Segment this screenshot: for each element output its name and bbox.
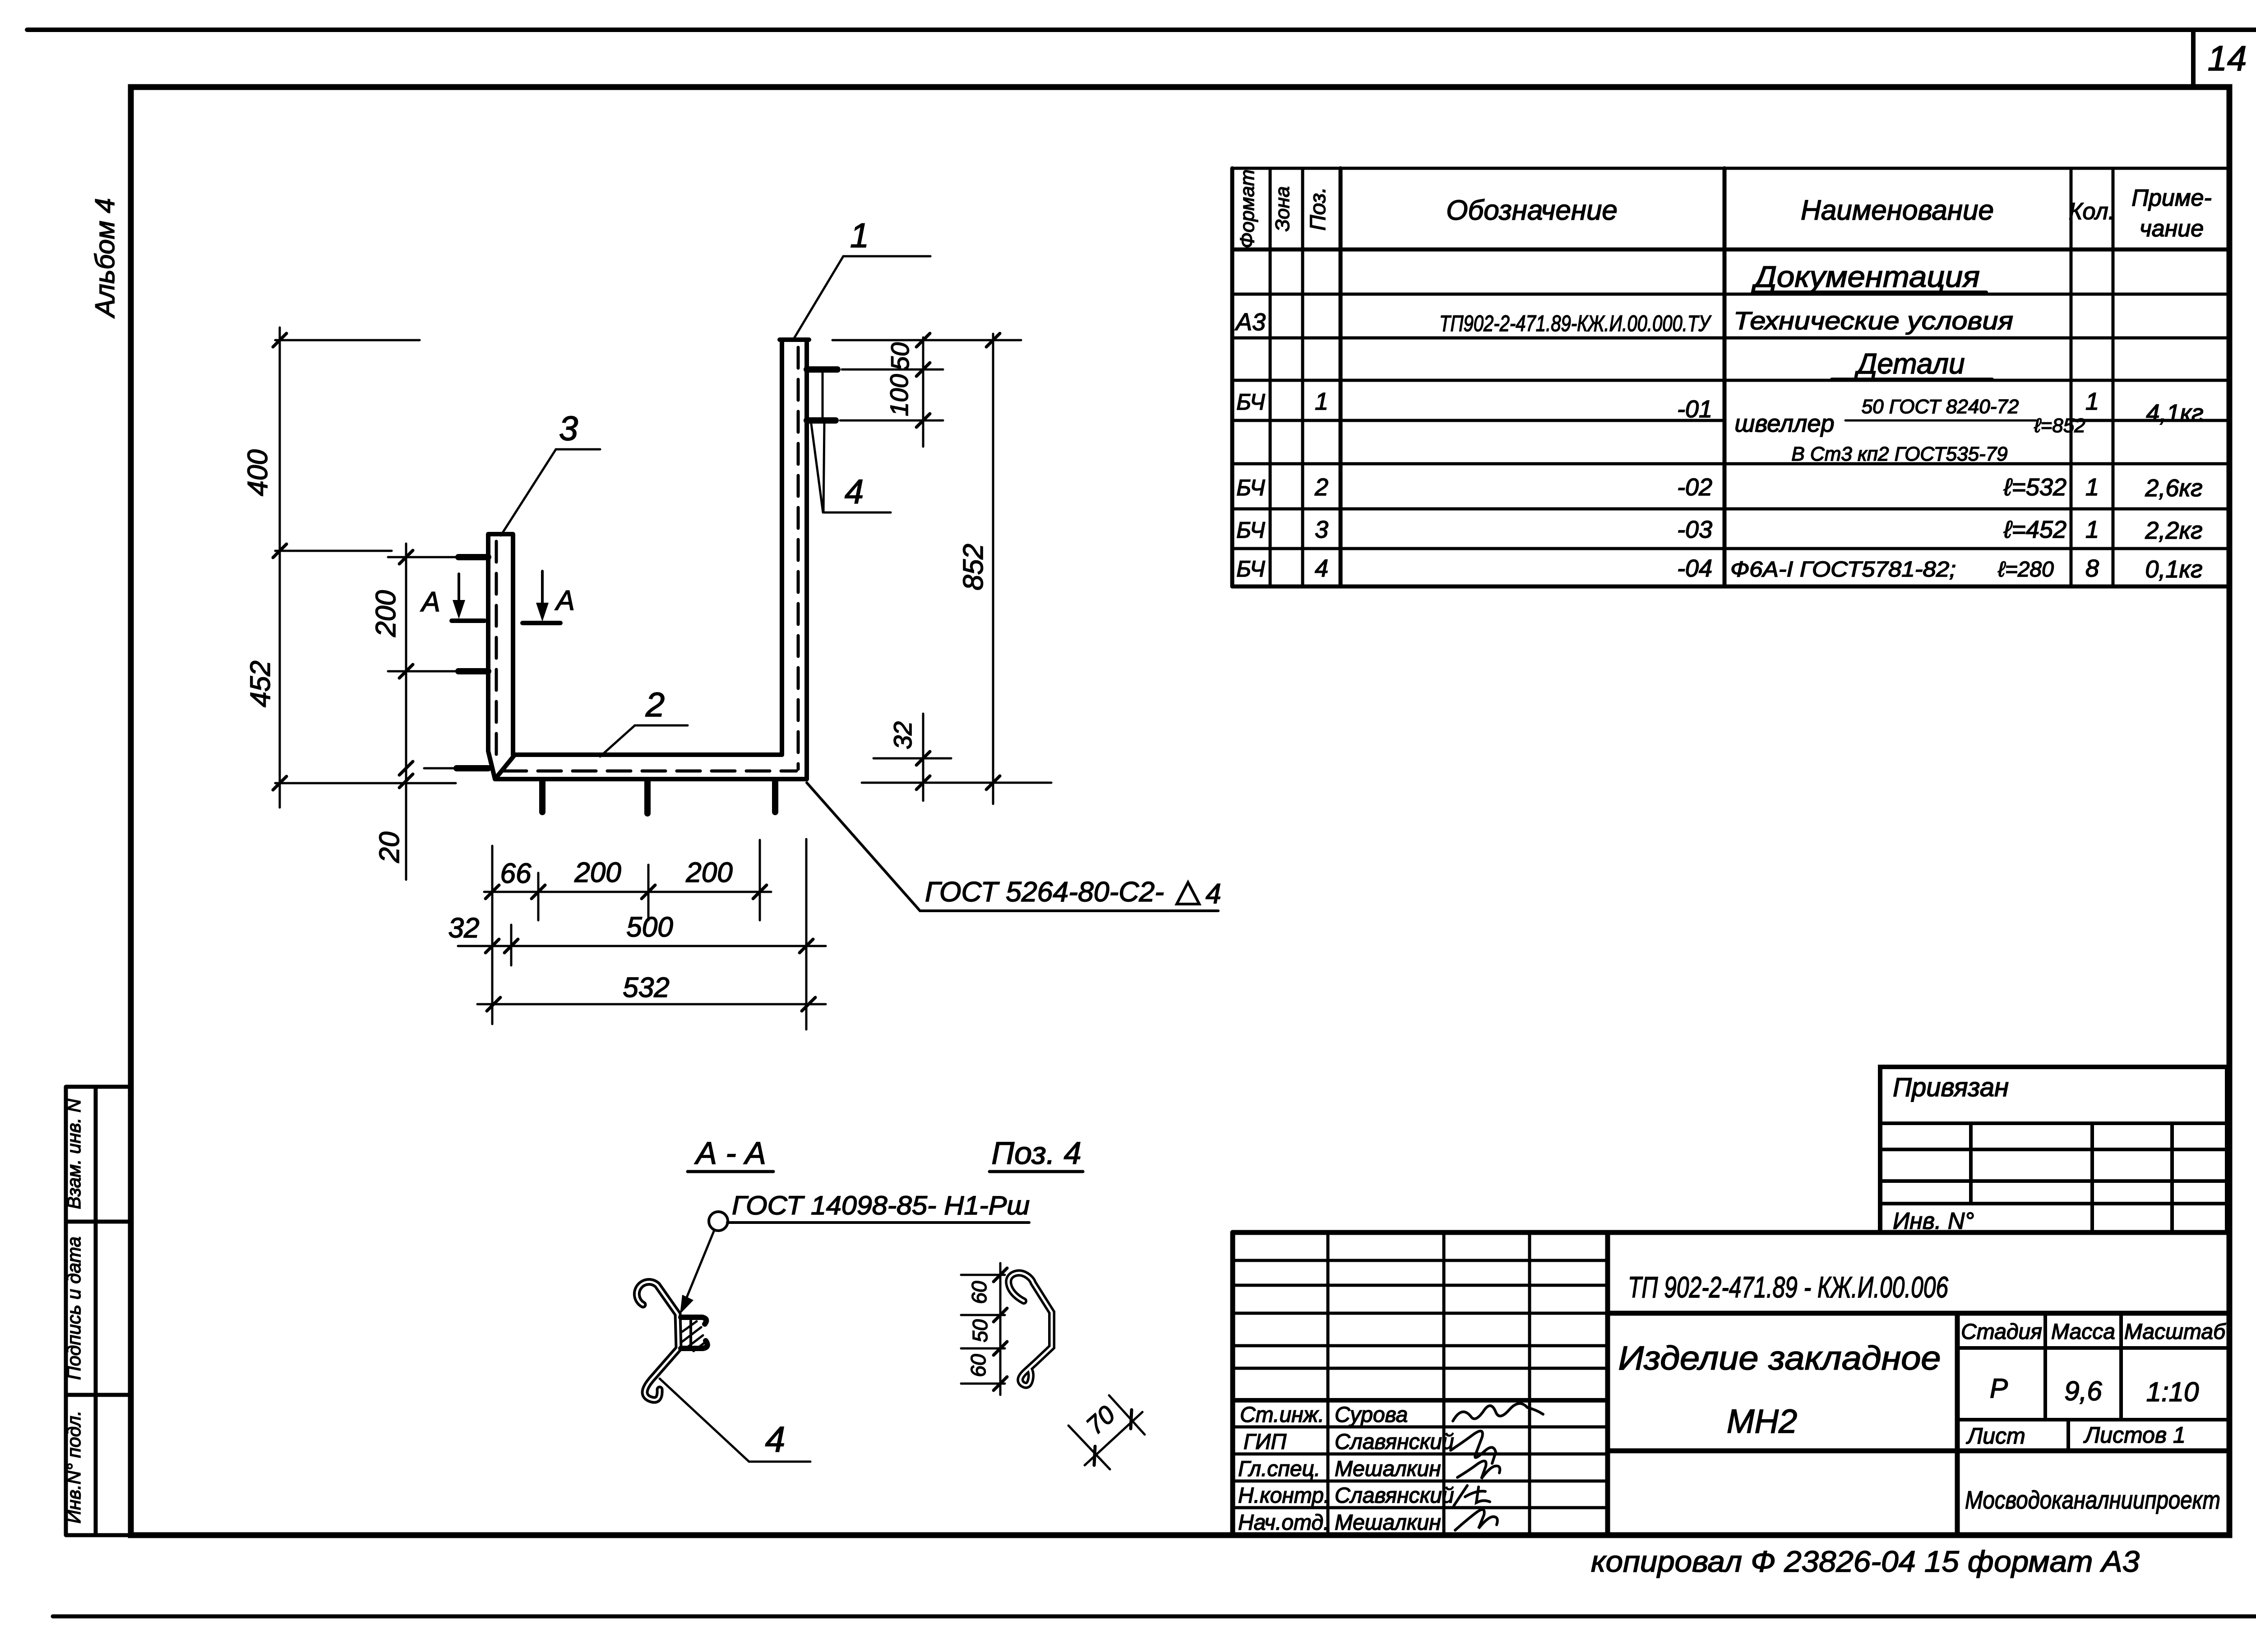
svg-text:Кол.: Кол.: [2069, 198, 2115, 225]
svg-text:500: 500: [626, 912, 673, 943]
svg-text:2,2кг: 2,2кг: [2145, 517, 2202, 544]
svg-text:В Ст3 кп2 ГОСТ535-79: В Ст3 кп2 ГОСТ535-79: [1791, 443, 2007, 465]
svg-text:1: 1: [2085, 516, 2099, 543]
weld symbol triangle: [1177, 882, 1199, 904]
bottom dim ticks: [485, 885, 815, 1011]
svg-text:Мешалкин: Мешалкин: [1335, 1457, 1441, 1481]
weld ref circle: [709, 1212, 728, 1231]
svg-text:1: 1: [2085, 388, 2099, 415]
dim ticks left: [273, 333, 413, 790]
svg-text:МН2: МН2: [1727, 1403, 1797, 1440]
svg-text:-02: -02: [1677, 474, 1712, 501]
svg-text:Наименование: Наименование: [1801, 195, 1994, 226]
bottom dimension line 532: [477, 1003, 826, 1006]
svg-text:Обозначение: Обозначение: [1446, 195, 1618, 226]
channel profile in section: [681, 1317, 707, 1348]
svg-text:4: 4: [1206, 878, 1221, 909]
rod pos 4 side view: [1008, 1273, 1052, 1385]
svg-text:50 ГОСТ 8240-72: 50 ГОСТ 8240-72: [1862, 396, 2019, 418]
rod pos 4 cross-section А-А: [637, 1282, 679, 1400]
svg-text:3: 3: [1315, 516, 1328, 543]
side view dim extension lines: [961, 1263, 1005, 1395]
svg-text:4: 4: [1315, 555, 1328, 582]
svg-text:66: 66: [500, 858, 532, 889]
dimension line 400/452 left: [279, 328, 281, 808]
svg-text:9,6: 9,6: [2064, 1376, 2102, 1406]
svg-text:Масса: Масса: [2051, 1320, 2115, 1344]
leader label 4 right: [811, 370, 891, 512]
bottom dimension extension verticals: [458, 839, 826, 1029]
svg-text:400: 400: [242, 449, 273, 496]
svg-text:-03: -03: [1677, 516, 1712, 543]
svg-text:Ф6А-I ГОСТ5781-82;: Ф6А-I ГОСТ5781-82;: [1730, 558, 1956, 581]
svg-text:1:10: 1:10: [2146, 1377, 2199, 1407]
svg-text:ℓ=532: ℓ=532: [2003, 474, 2066, 501]
svg-text:1: 1: [850, 217, 869, 255]
part 3 channel left vertical outline: [488, 534, 513, 779]
svg-text:Альбом 4: Альбом 4: [90, 198, 120, 318]
svg-text:3: 3: [559, 410, 578, 448]
svg-text:200: 200: [574, 857, 621, 888]
svg-text:14: 14: [2208, 38, 2247, 78]
dashed centerline part 3: [495, 541, 498, 765]
svg-text:Славянский: Славянский: [1335, 1484, 1454, 1508]
svg-text:БЧ: БЧ: [1236, 556, 1265, 581]
dashed centerline part 1: [797, 347, 800, 769]
dimension line 50/100 right inner: [922, 337, 925, 447]
signature squiggle row2: [1451, 1431, 1496, 1463]
svg-text:Привязан: Привязан: [1893, 1073, 2009, 1102]
side view dim ticks: [994, 1268, 1007, 1390]
title block signature table grid: [1233, 1232, 2229, 1535]
svg-text:ℓ=452: ℓ=452: [2003, 516, 2066, 543]
part 2 channel bottom horizontal outline: [495, 755, 807, 779]
svg-text:452: 452: [245, 660, 276, 707]
leader label 3: [501, 449, 600, 535]
leader label 2: [600, 725, 688, 757]
signature squiggle row5: [1455, 1509, 1498, 1530]
svg-text:Подпись и дата: Подпись и дата: [63, 1237, 84, 1380]
sheet number box "14": [2191, 30, 2196, 87]
leader label 4 bottom: [660, 1379, 810, 1462]
svg-text:ℓ=852: ℓ=852: [2034, 415, 2085, 437]
leader label 1: [793, 256, 930, 340]
svg-text:4: 4: [765, 1419, 786, 1459]
svg-text:копировал Ф 23826-04 15 форм: копировал Ф 23826-04 15 формат А3: [1591, 1545, 2140, 1578]
svg-text:200: 200: [685, 857, 732, 888]
svg-text:Стадия: Стадия: [1961, 1320, 2042, 1344]
svg-text:Документация: Документация: [1751, 260, 1980, 293]
svg-text:1: 1: [1315, 388, 1328, 415]
svg-text:32: 32: [448, 913, 480, 944]
svg-text:БЧ: БЧ: [1236, 389, 1265, 415]
svg-text:швеллер: швеллер: [1734, 410, 1834, 437]
svg-text:А: А: [420, 586, 440, 618]
side view dim line 60/50/60: [999, 1263, 1002, 1395]
svg-text:А - А: А - А: [694, 1135, 766, 1171]
part 1 channel right vertical outline: [488, 340, 809, 779]
svg-text:Славянский: Славянский: [1335, 1430, 1454, 1454]
svg-text:ГОСТ 5264-80-С2-: ГОСТ 5264-80-С2-: [925, 877, 1164, 908]
section hatching: [682, 1321, 705, 1351]
anchor rods pos 4 bottom: [539, 782, 546, 812]
weld ref arrow to section: [684, 1230, 714, 1305]
svg-text:-04: -04: [1677, 555, 1712, 582]
dimension extension lines right: [832, 334, 1051, 804]
svg-text:Приме-: Приме-: [2131, 185, 2211, 211]
svg-text:Взам. инв. N: Взам. инв. N: [63, 1098, 84, 1209]
svg-text:чание: чание: [2140, 216, 2204, 242]
svg-text:Поз. 4: Поз. 4: [991, 1135, 1081, 1171]
bottom dimension line 32/500: [458, 945, 826, 947]
weld leader ГОСТ 5264: [807, 783, 1218, 911]
svg-text:Поз.: Поз.: [1306, 187, 1330, 231]
svg-text:Зона: Зона: [1271, 186, 1294, 231]
svg-text:532: 532: [623, 972, 669, 1003]
svg-text:Лист: Лист: [1966, 1423, 2025, 1449]
svg-text:50: 50: [968, 1319, 992, 1343]
section mark A left arrow: [458, 574, 460, 613]
svg-text:0,1кг: 0,1кг: [2145, 556, 2202, 583]
svg-text:60: 60: [967, 1281, 991, 1304]
svg-text:ГИП: ГИП: [1244, 1430, 1286, 1454]
dim ticks right: [916, 333, 1000, 789]
svg-text:ГОСТ 14098-85- Н1-Рш: ГОСТ 14098-85- Н1-Рш: [732, 1191, 1030, 1220]
svg-text:ТП 902-2-471.89 - КЖ.И.00.006: ТП 902-2-471.89 - КЖ.И.00.006: [1628, 1270, 1948, 1304]
specification table grid: [1232, 168, 2229, 586]
svg-text:2: 2: [1314, 474, 1328, 501]
signature squiggle row3: [1457, 1461, 1500, 1479]
svg-text:А3: А3: [1234, 309, 1266, 336]
svg-text:Н.контр.: Н.контр.: [1238, 1484, 1330, 1508]
dashed centerline part 2: [503, 770, 796, 773]
svg-text:2,6кг: 2,6кг: [2145, 475, 2202, 502]
svg-text:ℓ=280: ℓ=280: [1997, 558, 2054, 581]
dimension line 32 right inner: [922, 714, 925, 801]
svg-text:А: А: [554, 585, 574, 616]
dimension line 852 right outer: [992, 334, 994, 804]
dimension extension lines left: [275, 328, 458, 880]
section mark A right arrow: [541, 571, 544, 615]
title block main cells: [1608, 1313, 2229, 1535]
svg-text:Ст.инж.: Ст.инж.: [1240, 1403, 1324, 1427]
svg-text:2: 2: [645, 686, 665, 724]
svg-text:Масштаб: Масштаб: [2124, 1320, 2226, 1344]
svg-text:200: 200: [370, 590, 402, 637]
svg-text:100: 100: [885, 374, 913, 416]
svg-text:Инв.N° подл.: Инв.N° подл.: [63, 1411, 84, 1524]
anchor rods pos 4 left side: [457, 369, 837, 813]
svg-text:БЧ: БЧ: [1236, 475, 1265, 500]
signature squiggle row1: [1453, 1403, 1543, 1421]
dimension line 200/20 left inner: [405, 544, 407, 880]
svg-text:Мешалкин: Мешалкин: [1335, 1511, 1441, 1535]
top rule line (photocopy sheet edge): [27, 28, 2256, 32]
dim 70 diagonal: [1068, 1395, 1145, 1469]
svg-text:ТП902-2-471.89-КЖ.И.00.000.ТУ: ТП902-2-471.89-КЖ.И.00.000.ТУ: [1439, 311, 1712, 336]
svg-text:БЧ: БЧ: [1236, 517, 1265, 543]
bottom rule line (photocopy sheet edge): [53, 1615, 2256, 1619]
svg-text:Нач.отд.: Нач.отд.: [1238, 1511, 1329, 1535]
svg-text:Гл.спец.: Гл.спец.: [1238, 1457, 1320, 1481]
svg-text:Р: Р: [1990, 1373, 2008, 1403]
svg-text:-01: -01: [1677, 396, 1712, 423]
svg-text:Формат: Формат: [1236, 170, 1258, 249]
svg-text:50: 50: [886, 342, 914, 370]
svg-text:Изделие закладное: Изделие закладное: [1618, 1339, 1941, 1377]
Привязан stamp table: [1880, 1067, 2227, 1232]
svg-text:Мосводоканалниипроект: Мосводоканалниипроект: [1965, 1486, 2220, 1514]
svg-text:852: 852: [958, 544, 989, 590]
svg-text:Технические условия: Технические условия: [1734, 306, 2013, 335]
bottom dimension line 66/200/200: [484, 891, 771, 893]
svg-text:32: 32: [888, 721, 917, 749]
svg-text:60: 60: [966, 1354, 990, 1377]
svg-text:Листов 1: Листов 1: [2083, 1422, 2186, 1448]
svg-text:20: 20: [374, 832, 405, 863]
svg-text:1: 1: [2085, 474, 2099, 501]
svg-text:Сурова: Сурова: [1335, 1403, 1408, 1427]
left attribute column boxes: [66, 1087, 131, 1535]
signature squiggle row4: [1454, 1486, 1490, 1506]
svg-text:Детали: Детали: [1854, 347, 1965, 380]
anchor rods pos 4 right side: [807, 366, 837, 373]
svg-text:8: 8: [2085, 555, 2099, 582]
svg-text:4: 4: [845, 473, 864, 511]
stamp columns Стадия Масса Масштаб: [1957, 1313, 2229, 1451]
svg-text:4,1кг: 4,1кг: [2146, 400, 2203, 427]
